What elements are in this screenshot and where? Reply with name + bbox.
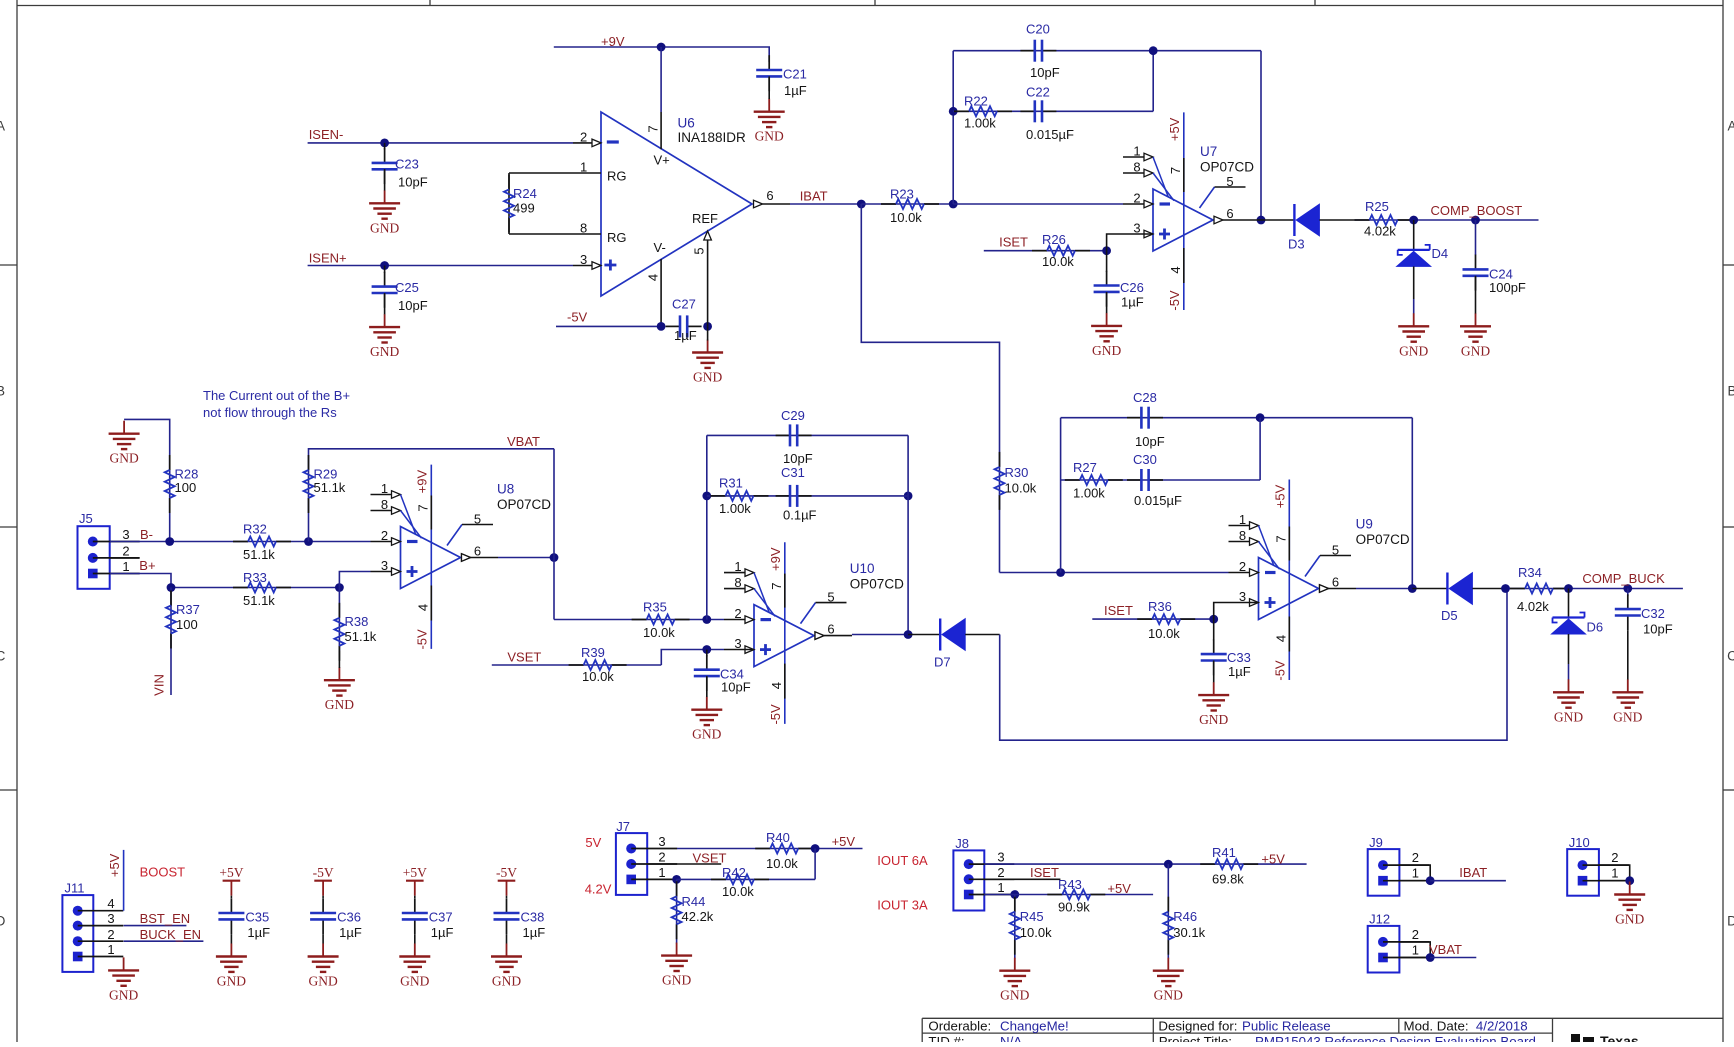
- svg-text:-5V: -5V: [496, 865, 517, 880]
- svg-text:U10: U10: [850, 561, 875, 576]
- svg-text:C30: C30: [1133, 452, 1157, 467]
- svg-text:R45: R45: [1020, 909, 1044, 924]
- svg-text:BST_EN: BST_EN: [140, 911, 191, 926]
- svg-text:1: 1: [658, 865, 665, 880]
- svg-text:VBAT: VBAT: [1429, 942, 1462, 957]
- svg-text:D3: D3: [1288, 237, 1305, 252]
- svg-text:8: 8: [580, 220, 587, 235]
- svg-text:10pF: 10pF: [721, 680, 751, 695]
- svg-text:3: 3: [107, 911, 114, 926]
- svg-text:+5V: +5V: [1261, 852, 1285, 867]
- svg-text:R37: R37: [176, 602, 200, 617]
- svg-text:C33: C33: [1227, 650, 1251, 665]
- svg-text:7: 7: [645, 125, 660, 132]
- svg-text:4: 4: [416, 604, 431, 611]
- svg-text:10.0k: 10.0k: [1020, 925, 1052, 940]
- svg-text:2: 2: [658, 850, 665, 865]
- svg-text:C26: C26: [1120, 280, 1144, 295]
- svg-text:R23: R23: [890, 187, 914, 202]
- svg-text:V+: V+: [654, 153, 670, 168]
- svg-text:2: 2: [1133, 191, 1140, 206]
- svg-text:R35: R35: [643, 600, 667, 615]
- svg-text:IOUT 3A: IOUT 3A: [877, 898, 928, 913]
- svg-text:GND: GND: [1554, 709, 1583, 724]
- svg-text:J7: J7: [616, 819, 630, 834]
- svg-text:GND: GND: [109, 451, 138, 466]
- svg-text:+5V: +5V: [1167, 117, 1182, 141]
- svg-text:2: 2: [1412, 927, 1419, 942]
- svg-text:COMP_BOOST: COMP_BOOST: [1431, 203, 1523, 218]
- svg-text:1.00k: 1.00k: [964, 116, 996, 131]
- svg-text:4.02k: 4.02k: [1517, 599, 1549, 614]
- svg-text:ISEN+: ISEN+: [309, 251, 347, 266]
- svg-text:Public Release: Public Release: [1242, 1019, 1331, 1034]
- svg-text:R34: R34: [1518, 565, 1542, 580]
- svg-text:10.0k: 10.0k: [582, 669, 614, 684]
- svg-text:5: 5: [827, 590, 834, 605]
- svg-text:C25: C25: [395, 280, 419, 295]
- svg-text:10.0k: 10.0k: [890, 210, 922, 225]
- svg-text:A: A: [1727, 119, 1734, 134]
- svg-text:0.015µF: 0.015µF: [1134, 493, 1182, 508]
- svg-text:GND: GND: [325, 697, 354, 712]
- svg-text:C28: C28: [1133, 390, 1157, 405]
- svg-text:BUCK_EN: BUCK_EN: [140, 927, 201, 942]
- svg-text:7: 7: [416, 504, 431, 511]
- svg-text:8: 8: [734, 575, 741, 590]
- svg-text:51.1k: 51.1k: [345, 629, 377, 644]
- svg-text:+9V: +9V: [415, 470, 430, 494]
- svg-text:BOOST: BOOST: [140, 865, 186, 880]
- svg-text:3: 3: [122, 527, 129, 542]
- svg-text:J10: J10: [1569, 835, 1590, 850]
- svg-text:R38: R38: [345, 614, 369, 629]
- svg-text:J11: J11: [65, 881, 85, 896]
- svg-text:4: 4: [769, 682, 784, 689]
- svg-text:10.0k: 10.0k: [643, 625, 675, 640]
- svg-text:5: 5: [474, 512, 481, 527]
- svg-text:N/A: N/A: [1000, 1034, 1022, 1042]
- svg-text:7: 7: [1168, 167, 1183, 174]
- svg-text:J12: J12: [1369, 912, 1390, 927]
- svg-text:+9V: +9V: [768, 547, 783, 571]
- svg-text:0.015µF: 0.015µF: [1026, 127, 1074, 142]
- svg-text:D4: D4: [1432, 246, 1449, 261]
- svg-text:D: D: [1727, 914, 1734, 929]
- svg-text:C: C: [0, 649, 6, 664]
- svg-text:499: 499: [513, 201, 535, 216]
- svg-text:10.0k: 10.0k: [1042, 254, 1074, 269]
- svg-text:2: 2: [580, 129, 587, 144]
- svg-text:+5V: +5V: [1273, 484, 1288, 508]
- svg-text:C20: C20: [1026, 22, 1050, 37]
- svg-text:1.00k: 1.00k: [719, 501, 751, 516]
- svg-text:6: 6: [827, 622, 834, 637]
- svg-text:6: 6: [766, 188, 773, 203]
- svg-text:-5V: -5V: [1167, 290, 1182, 311]
- svg-text:GND: GND: [662, 973, 691, 988]
- svg-text:R24: R24: [513, 186, 537, 201]
- svg-text:10pF: 10pF: [783, 451, 813, 466]
- svg-text:3: 3: [997, 850, 1004, 865]
- svg-text:4: 4: [1274, 635, 1289, 642]
- svg-text:Project Title:: Project Title:: [1159, 1034, 1232, 1042]
- svg-text:8: 8: [1239, 528, 1246, 543]
- svg-text:OP07CD: OP07CD: [1356, 532, 1410, 547]
- svg-text:7: 7: [1274, 535, 1289, 542]
- svg-text:COMP_BUCK: COMP_BUCK: [1582, 571, 1665, 586]
- svg-text:V-: V-: [654, 240, 666, 255]
- svg-text:1: 1: [1133, 144, 1140, 159]
- svg-text:J9: J9: [1369, 835, 1383, 850]
- svg-text:GND: GND: [692, 727, 721, 742]
- svg-text:8: 8: [381, 497, 388, 512]
- svg-text:+5V: +5V: [1107, 881, 1131, 896]
- svg-text:ISET: ISET: [999, 235, 1028, 250]
- svg-text:1: 1: [1412, 943, 1419, 958]
- svg-text:U6: U6: [678, 116, 695, 131]
- svg-text:OP07CD: OP07CD: [497, 497, 551, 512]
- svg-text:C22: C22: [1026, 85, 1050, 100]
- svg-text:IOUT 6A: IOUT 6A: [877, 853, 928, 868]
- svg-text:R31: R31: [719, 476, 743, 491]
- svg-text:51.1k: 51.1k: [314, 480, 346, 495]
- svg-text:GND: GND: [1461, 343, 1490, 358]
- svg-text:VIN: VIN: [151, 674, 166, 696]
- svg-text:B+: B+: [139, 558, 155, 573]
- svg-text:R44: R44: [682, 894, 706, 909]
- svg-text:D6: D6: [1587, 620, 1604, 635]
- svg-text:GND: GND: [1613, 709, 1642, 724]
- svg-text:1: 1: [997, 880, 1004, 895]
- svg-text:D5: D5: [1441, 608, 1458, 623]
- svg-text:Mod. Date:: Mod. Date:: [1404, 1019, 1469, 1034]
- svg-text:6: 6: [474, 544, 481, 559]
- svg-text:C29: C29: [781, 408, 805, 423]
- svg-text:1µF: 1µF: [431, 925, 454, 940]
- svg-text:A: A: [0, 119, 5, 134]
- svg-text:R30: R30: [1005, 465, 1029, 480]
- svg-text:U8: U8: [497, 482, 514, 497]
- svg-text:TID #:: TID #:: [928, 1034, 964, 1042]
- svg-text:B: B: [0, 384, 5, 399]
- svg-text:4.02k: 4.02k: [1364, 224, 1396, 239]
- svg-text:-5V: -5V: [1273, 660, 1288, 681]
- svg-text:1µF: 1µF: [1228, 664, 1251, 679]
- svg-text:-5V: -5V: [415, 629, 430, 650]
- svg-text:REF: REF: [692, 211, 718, 226]
- svg-text:GND: GND: [308, 974, 337, 989]
- svg-text:GND: GND: [492, 974, 521, 989]
- svg-text:3: 3: [381, 558, 388, 573]
- svg-text:30.1k: 30.1k: [1173, 925, 1205, 940]
- svg-text:GND: GND: [1154, 988, 1183, 1003]
- svg-text:INA188IDR: INA188IDR: [678, 130, 747, 145]
- svg-text:GND: GND: [400, 974, 429, 989]
- svg-text:4.2V: 4.2V: [585, 882, 612, 897]
- svg-text:R25: R25: [1365, 199, 1389, 214]
- svg-text:GND: GND: [1615, 912, 1644, 927]
- svg-text:+5V: +5V: [832, 834, 856, 849]
- svg-text:GND: GND: [1092, 343, 1121, 358]
- svg-text:8: 8: [1133, 160, 1140, 175]
- svg-text:GND: GND: [1399, 343, 1428, 358]
- svg-text:2: 2: [734, 606, 741, 621]
- svg-text:2: 2: [1611, 850, 1618, 865]
- svg-text:R22: R22: [964, 94, 988, 109]
- svg-text:1: 1: [122, 559, 129, 574]
- svg-text:5: 5: [691, 247, 706, 254]
- svg-text:U9: U9: [1356, 517, 1373, 532]
- svg-text:10.0k: 10.0k: [766, 856, 798, 871]
- svg-text:100pF: 100pF: [1489, 280, 1526, 295]
- svg-text:-5V: -5V: [567, 310, 588, 325]
- svg-text:10pF: 10pF: [1643, 622, 1673, 637]
- svg-text:1µF: 1µF: [523, 925, 546, 940]
- svg-text:GND: GND: [370, 220, 399, 235]
- svg-text:1: 1: [381, 481, 388, 496]
- svg-text:R39: R39: [581, 645, 605, 660]
- svg-text:6: 6: [1226, 206, 1233, 221]
- svg-text:1: 1: [734, 559, 741, 574]
- svg-text:51.1k: 51.1k: [243, 547, 275, 562]
- svg-text:RG: RG: [607, 169, 627, 184]
- svg-text:100: 100: [175, 480, 197, 495]
- svg-text:69.8k: 69.8k: [1212, 872, 1244, 887]
- svg-text:4: 4: [107, 896, 114, 911]
- svg-text:Designed for:: Designed for:: [1158, 1019, 1237, 1034]
- svg-text:R36: R36: [1148, 599, 1172, 614]
- svg-text:GND: GND: [217, 974, 246, 989]
- svg-text:PMP15043 Reference Design Eval: PMP15043 Reference Design Evaluation Boa…: [1255, 1034, 1536, 1042]
- svg-text:GND: GND: [1199, 712, 1228, 727]
- svg-text:1: 1: [107, 942, 114, 957]
- svg-text:10pF: 10pF: [1030, 65, 1060, 80]
- svg-text:3: 3: [658, 834, 665, 849]
- svg-text:2: 2: [381, 528, 388, 543]
- svg-text:1µF: 1µF: [674, 328, 697, 343]
- svg-text:C23: C23: [395, 157, 419, 172]
- svg-text:The Current out of the B+: The Current out of the B+: [203, 388, 350, 403]
- svg-text:10.0k: 10.0k: [722, 884, 754, 899]
- svg-text:5: 5: [1332, 543, 1339, 558]
- svg-text:IBAT: IBAT: [800, 189, 828, 204]
- svg-text:1µF: 1µF: [247, 925, 270, 940]
- svg-text:C37: C37: [429, 910, 453, 925]
- svg-text:1µF: 1µF: [784, 83, 807, 98]
- svg-text:4: 4: [1168, 266, 1183, 273]
- svg-text:IBAT: IBAT: [1459, 865, 1487, 880]
- svg-text:J5: J5: [79, 511, 93, 526]
- svg-text:not flow through the Rs: not flow through the Rs: [203, 405, 337, 420]
- svg-text:+5V: +5V: [219, 865, 243, 880]
- svg-text:2: 2: [1412, 850, 1419, 865]
- svg-text:2: 2: [997, 865, 1004, 880]
- svg-text:GND: GND: [370, 344, 399, 359]
- svg-text:+5V: +5V: [403, 865, 427, 880]
- svg-text:3: 3: [580, 252, 587, 267]
- svg-text:GND: GND: [755, 129, 784, 144]
- svg-text:Orderable:: Orderable:: [928, 1019, 991, 1034]
- svg-text:D: D: [0, 914, 6, 929]
- svg-text:ISEN-: ISEN-: [309, 127, 344, 142]
- svg-text:1µF: 1µF: [339, 925, 362, 940]
- svg-text:+5V: +5V: [107, 853, 122, 877]
- svg-text:RG: RG: [607, 230, 627, 245]
- svg-text:R42: R42: [722, 865, 746, 880]
- svg-text:100: 100: [176, 617, 198, 632]
- svg-text:ISET: ISET: [1104, 603, 1133, 618]
- svg-text:10pF: 10pF: [398, 298, 428, 313]
- svg-text:10pF: 10pF: [398, 175, 428, 190]
- svg-text:1: 1: [1611, 866, 1618, 881]
- svg-text:1: 1: [1412, 866, 1419, 881]
- svg-text:6: 6: [1332, 575, 1339, 590]
- svg-text:J8: J8: [955, 836, 969, 851]
- svg-text:1: 1: [1239, 512, 1246, 527]
- svg-text:GND: GND: [109, 987, 138, 1002]
- svg-text:C: C: [1727, 649, 1734, 664]
- svg-text:R32: R32: [243, 522, 267, 537]
- svg-text:R33: R33: [243, 570, 267, 585]
- svg-text:10.0k: 10.0k: [1148, 626, 1180, 641]
- svg-text:OP07CD: OP07CD: [1200, 160, 1254, 175]
- svg-text:4/2/2018: 4/2/2018: [1476, 1019, 1528, 1034]
- svg-text:C32: C32: [1641, 606, 1665, 621]
- svg-text:R40: R40: [766, 830, 790, 845]
- svg-text:1.00k: 1.00k: [1073, 486, 1105, 501]
- svg-text:10.0k: 10.0k: [1005, 481, 1037, 496]
- svg-text:90.9k: 90.9k: [1058, 900, 1090, 915]
- svg-text:Texas: Texas: [1600, 1033, 1639, 1042]
- svg-text:ISET: ISET: [1030, 865, 1059, 880]
- svg-text:R43: R43: [1058, 877, 1082, 892]
- svg-text:10pF: 10pF: [1135, 434, 1165, 449]
- svg-text:ChangeMe!: ChangeMe!: [1000, 1019, 1069, 1034]
- svg-text:C21: C21: [783, 67, 807, 82]
- svg-text:C35: C35: [245, 910, 269, 925]
- svg-text:C36: C36: [337, 910, 361, 925]
- svg-text:4: 4: [645, 274, 660, 281]
- svg-text:VBAT: VBAT: [507, 434, 540, 449]
- svg-text:2: 2: [107, 927, 114, 942]
- svg-text:5V: 5V: [585, 835, 601, 850]
- svg-text:2: 2: [122, 544, 129, 559]
- svg-text:D7: D7: [934, 655, 951, 670]
- svg-text:GND: GND: [1000, 988, 1029, 1003]
- svg-text:B: B: [1727, 384, 1734, 399]
- svg-text:5: 5: [1226, 174, 1233, 189]
- svg-text:C31: C31: [781, 465, 805, 480]
- svg-text:R41: R41: [1212, 845, 1236, 860]
- svg-text:1µF: 1µF: [1121, 295, 1144, 310]
- svg-text:-5V: -5V: [768, 704, 783, 725]
- svg-text:VSET: VSET: [693, 851, 727, 866]
- svg-text:0.1µF: 0.1µF: [783, 508, 817, 523]
- svg-text:51.1k: 51.1k: [243, 593, 275, 608]
- svg-text:R27: R27: [1073, 460, 1097, 475]
- svg-text:-5V: -5V: [313, 865, 334, 880]
- svg-text:R26: R26: [1042, 232, 1066, 247]
- svg-text:C38: C38: [521, 910, 545, 925]
- svg-text:U7: U7: [1200, 144, 1217, 159]
- svg-text:7: 7: [769, 582, 784, 589]
- svg-text:1: 1: [580, 159, 587, 174]
- svg-text:VSET: VSET: [507, 650, 541, 665]
- svg-text:42.2k: 42.2k: [682, 909, 714, 924]
- svg-text:R46: R46: [1173, 909, 1197, 924]
- svg-text:2: 2: [1239, 559, 1246, 574]
- svg-text:B-: B-: [140, 527, 153, 542]
- svg-text:OP07CD: OP07CD: [850, 577, 904, 592]
- svg-text:GND: GND: [693, 370, 722, 385]
- svg-text:C27: C27: [672, 297, 696, 312]
